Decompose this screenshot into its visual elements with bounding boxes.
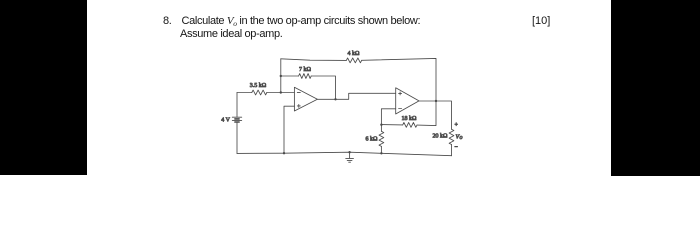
resistor 7 kOhm xyxy=(299,74,312,79)
node 6k ground tie xyxy=(380,152,382,154)
node noninverting ground tie xyxy=(283,152,285,154)
svg-text:+: + xyxy=(455,123,459,129)
wire left vertical (source branch) xyxy=(236,93,238,154)
op-amp U1 xyxy=(294,87,317,111)
ground xyxy=(346,152,354,162)
battery 4V source xyxy=(232,117,241,122)
svg-text:3.5 kΩ: 3.5 kΩ xyxy=(250,83,267,89)
svg-text:o: o xyxy=(460,135,463,141)
node 7k feedback tee xyxy=(280,75,282,77)
wire 18k left segment xyxy=(381,124,402,126)
wire U2 inverting input to feedback node xyxy=(381,109,395,125)
resistor 3.5 kOhm xyxy=(252,90,267,95)
svg-text:6 kΩ: 6 kΩ xyxy=(366,136,379,142)
wire 6k bottom lead to ground rail xyxy=(380,146,382,153)
wire 7k feedback left segment xyxy=(281,75,299,77)
wire 6k top lead xyxy=(380,125,382,132)
wire 18k right segment up to U2 output node xyxy=(417,101,436,126)
svg-text:20 kΩ: 20 kΩ xyxy=(433,133,449,139)
wire top-left horizontal to 3.5k xyxy=(237,92,252,94)
wire top feedback to 4k xyxy=(281,59,347,61)
wire U2 output to load xyxy=(419,101,452,129)
node U2 feedback junction xyxy=(380,124,382,126)
svg-text:4 V: 4 V xyxy=(221,118,230,124)
resistor 4 kOhm xyxy=(346,58,361,63)
wire 4k to right vertical down to U2 output xyxy=(362,58,436,101)
resistor 20 kOhm xyxy=(449,129,454,144)
wire U1 output xyxy=(317,93,395,99)
right black scan bar xyxy=(611,0,700,176)
node inverting input U1 xyxy=(280,91,282,93)
svg-text:18 kΩ: 18 kΩ xyxy=(402,116,418,122)
wire U1 noninverting input down to ground rail xyxy=(284,106,294,153)
resistor 18 kOhm xyxy=(403,123,417,128)
question text line 1 xyxy=(163,16,420,29)
wire 7k feedback right segment down to U1 output xyxy=(311,76,335,99)
marks [10] xyxy=(532,16,550,27)
question text line 2 xyxy=(180,29,282,40)
node U2 output xyxy=(435,100,437,102)
wire vertical feedback riser xyxy=(280,59,282,93)
wire bottom ground rail xyxy=(237,152,452,156)
left black scan bar xyxy=(0,0,87,175)
svg-text:7 kΩ: 7 kΩ xyxy=(299,67,312,73)
wire 20k bottom lead xyxy=(451,145,453,156)
resistor 6 kOhm xyxy=(379,131,384,146)
wire 3.5k to inverting input of U1 xyxy=(267,92,295,94)
svg-text:4 kΩ: 4 kΩ xyxy=(348,51,361,57)
op-amp U2 xyxy=(396,88,419,114)
svg-text:−: − xyxy=(455,145,459,151)
node ground stub xyxy=(348,151,350,153)
node U1 output / 7k junction xyxy=(334,98,336,100)
